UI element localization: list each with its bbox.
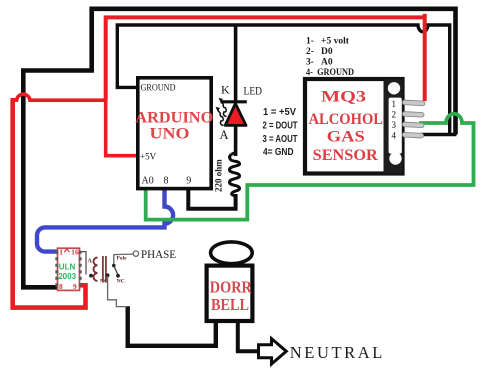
neutral arrow symbol [259, 339, 287, 364]
light arrow 2 [218, 111, 223, 126]
pole pivot dot [112, 264, 116, 268]
sensor right dark strip [384, 79, 403, 173]
red corner overshoot nub [423, 14, 427, 18]
svg-text:A0: A0 [142, 176, 154, 187]
svg-text:LED: LED [244, 84, 263, 98]
svg-text:BELL: BELL [211, 295, 249, 314]
svg-text:ARDUINO: ARDUINO [135, 109, 213, 126]
label MQ3 ALCOHOL GAS SENSOR [309, 89, 384, 164]
doorbell bell dome outline [211, 242, 253, 264]
wire: LED cathode riser to ground bus [234, 25, 238, 101]
relay coil wires from ULN pin16 [80, 252, 87, 275]
svg-text:8: 8 [164, 176, 169, 187]
wire: red +5V branch into Arduino [106, 98, 137, 156]
wire: sensor pin4 GND horizontal [421, 133, 457, 136]
MQ3 sensor U2 box [305, 79, 403, 174]
svg-text:K: K [221, 83, 230, 97]
ULN2003 U3 box [58, 248, 80, 290]
doorbell box [207, 266, 253, 321]
svg-text:1 = +5V: 1 = +5V [263, 106, 296, 118]
NO contact dot [106, 273, 110, 277]
wire: +5V red from corner to sensor pin1 [106, 17, 425, 101]
strip bottom hole [389, 152, 401, 164]
cathode bar [221, 100, 247, 103]
svg-text:4: 4 [392, 130, 397, 140]
svg-text:A: A [88, 259, 93, 265]
svg-text:ULN: ULN [59, 261, 76, 271]
ULN pin nubs right [79, 251, 82, 286]
wire: NO contact staircase down [108, 276, 127, 307]
wire: relay NO contact to doorbell left leg (thick bottom) [128, 306, 216, 346]
svg-text:9: 9 [186, 176, 191, 187]
svg-text:220 ohm: 220 ohm [214, 159, 224, 192]
svg-text:PHASE: PHASE [141, 249, 176, 261]
svg-text:1- +5 volt: 1- +5 volt [306, 37, 350, 47]
svg-text:16: 16 [71, 248, 79, 257]
svg-text:NC: NC [117, 278, 125, 284]
svg-text:2 = DOUT: 2 = DOUT [263, 119, 298, 131]
svg-text:MQ3: MQ3 [321, 89, 366, 106]
svg-text:8: 8 [59, 282, 63, 291]
svg-text:2003: 2003 [58, 271, 76, 281]
relay switch: pole to PHASE terminal [114, 254, 133, 265]
wire: green A0 net Arduino-A0 to sensor pin3 (hop over black at x453) [146, 114, 474, 220]
doorbell bell dome fill [211, 242, 253, 264]
svg-text:GAS: GAS [327, 129, 365, 146]
label ULN 2003 [58, 261, 76, 281]
switch arm [114, 266, 118, 275]
svg-text:4= GND: 4= GND [263, 146, 294, 158]
svg-text:NEUTRAL: NEUTRAL [290, 343, 383, 362]
wire: ground bus from ULN pin8 up-left, across top to sensor pin4 [23, 9, 455, 288]
svg-text:SENSOR: SENSOR [313, 147, 378, 164]
svg-text:2: 2 [392, 109, 397, 119]
ULN pin nubs left [55, 251, 58, 286]
anode lead [234, 125, 238, 156]
strip pin number panel [389, 98, 402, 154]
NC contact dot [116, 274, 120, 278]
svg-text:4- GROUND: 4- GROUND [306, 68, 354, 78]
ULN pin1 notch caret [64, 249, 69, 252]
relay K1 coil [94, 256, 106, 283]
wire: red left vertical down to ULN pin9 [13, 98, 86, 308]
sensor legend top [306, 37, 354, 79]
arduino U1 box [138, 78, 211, 189]
sensor pins (gray headers) [402, 100, 425, 138]
wire: Arduino GROUND to sensor pin4 (with hop under red at x424) [117, 25, 449, 135]
wire: doorbell right leg to neutral arrow [238, 322, 259, 351]
svg-text:3: 3 [392, 120, 397, 130]
resistor R1 220 ohm zigzag [229, 153, 239, 196]
strip top hole [388, 82, 400, 94]
coil terminal dot B [89, 274, 93, 278]
light arrow 1 [221, 102, 226, 117]
svg-text:1: 1 [59, 248, 63, 257]
ULN pin labels 1 16 8 9 [59, 248, 79, 292]
svg-text:DORR: DORR [210, 278, 253, 297]
pin numbers 1 2 3 4 [392, 99, 397, 141]
LED D1 [216, 98, 247, 156]
svg-text:GROUND: GROUND [141, 84, 176, 94]
svg-text:+5V: +5V [140, 152, 157, 162]
sensor side legend [263, 106, 298, 158]
svg-text:A: A [220, 128, 229, 142]
svg-text:9: 9 [73, 282, 77, 291]
svg-text:2- D0: 2- D0 [306, 47, 333, 57]
PHASE terminal circle [133, 251, 138, 256]
triangle [225, 104, 246, 126]
wire: blue pin8 to ULN pin1 (detour around green) [37, 189, 173, 252]
svg-text:UNO: UNO [150, 126, 190, 143]
wire: Arduino pin9 to resistor bottom [188, 189, 235, 209]
svg-text:ALCOHOL: ALCOHOL [309, 111, 384, 128]
svg-text:3 = AOUT: 3 = AOUT [263, 133, 298, 145]
svg-text:3- A0: 3- A0 [306, 58, 333, 68]
svg-text:Pole: Pole [117, 255, 128, 261]
svg-text:1: 1 [392, 99, 397, 109]
wire: red branch left with hop over black vertical [13, 94, 107, 100]
